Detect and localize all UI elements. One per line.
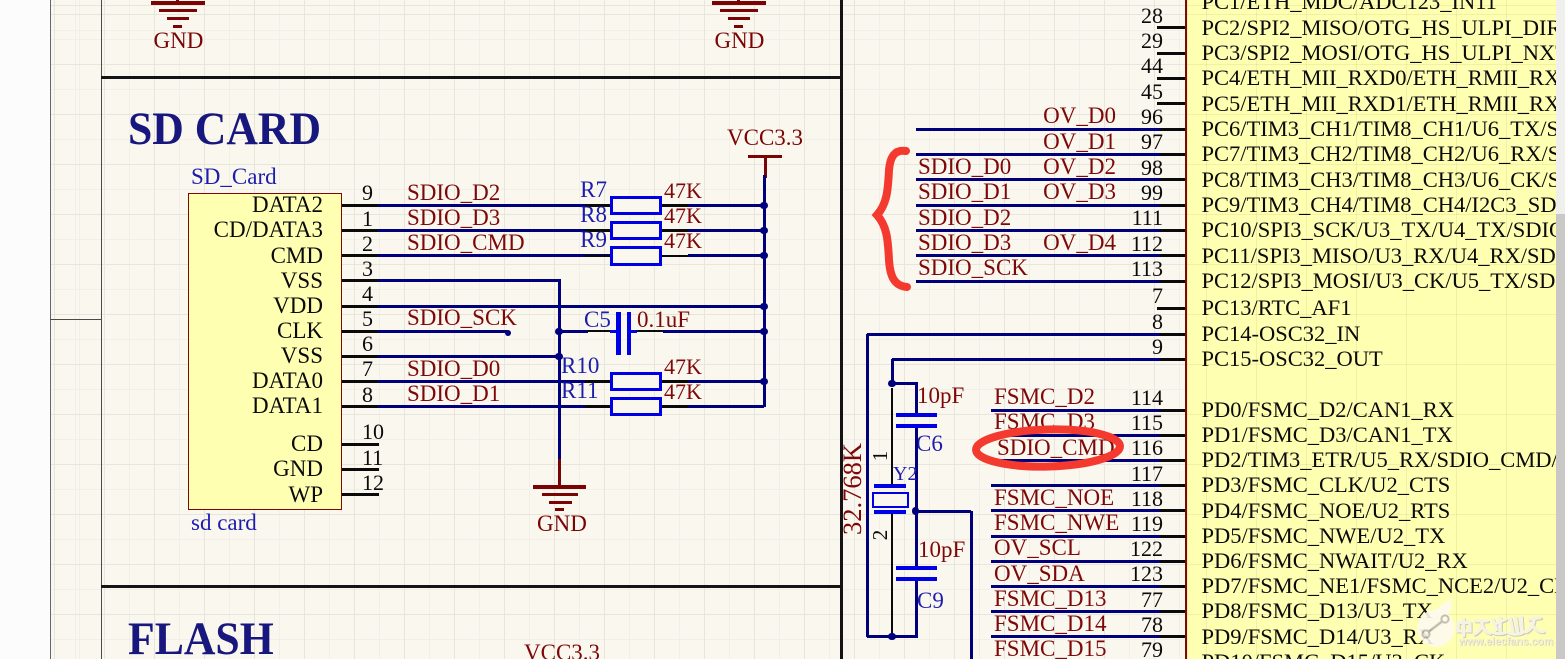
label 47K (R9) <box>664 229 702 253</box>
wire node to VSS (down) <box>916 510 972 513</box>
wire SDIO_D1 <box>378 405 612 408</box>
pin 96 (PC6) of U1 <box>1157 128 1185 131</box>
net label SDIO_D0 <box>407 357 500 381</box>
pin 99 (PC9) of U1 <box>1157 204 1185 207</box>
pin 12 (WP) of SD_Card <box>342 493 379 496</box>
capacitor C6 <box>896 413 937 418</box>
resistor R8 <box>610 221 662 241</box>
pin of R9 <box>585 255 610 258</box>
power VCC3.3 <box>727 126 803 150</box>
label R9 <box>547 228 607 252</box>
label R10 <box>561 354 599 378</box>
pin 77 (PD8) of U1 <box>1157 610 1185 613</box>
pin 122 (PD6) of U1 <box>1157 560 1185 563</box>
pin of R10 <box>585 380 610 383</box>
wire row 111 <box>916 229 1161 232</box>
pin 28 (PC2) of U1 <box>1157 26 1185 29</box>
junction <box>760 328 767 335</box>
crystal Y2 pin 1 <box>891 388 893 485</box>
pin 11 (GND) of SD_Card <box>342 468 379 471</box>
net label OV_D1 <box>1026 130 1116 154</box>
label 10pF (C9) <box>918 538 965 562</box>
net label OV_D0 <box>1026 104 1116 128</box>
pin ?? (PC1/ETH_MDC/ADC123_IN11) of U1 <box>1202 0 1497 14</box>
net label SDIO_D3 <box>407 206 500 230</box>
resistor R10 <box>610 372 662 392</box>
net label OV_SDA <box>994 562 1085 586</box>
pin 9 (PC15-OSC32_OUT) of U1 <box>1157 358 1185 361</box>
pin 10 (CD) of SD_Card <box>342 443 379 446</box>
ground (top right) <box>737 0 740 2</box>
pin of R7 <box>585 204 610 207</box>
wire R7 to VCC rail <box>688 204 764 207</box>
sheet border line <box>50 0 51 659</box>
pin 78 (PD9) of U1 <box>1157 635 1185 638</box>
pin of R11 <box>585 405 610 408</box>
junction <box>555 328 562 335</box>
label 47K (R11) <box>664 380 702 404</box>
ground (top left) <box>176 0 179 2</box>
wire R8 to VCC rail <box>688 229 764 232</box>
wire row 78 <box>991 635 1160 638</box>
net label SDIO_CMD <box>997 436 1115 460</box>
component SD_Card body <box>188 193 342 510</box>
pin 7 (DATA0) of SD_Card <box>342 380 379 383</box>
net label SDIO_SCK (MCU side) <box>918 256 1028 280</box>
wire row 97 <box>916 153 1161 156</box>
net label FSMC_D2 <box>994 385 1095 409</box>
wire C6 bottom to node <box>915 428 918 511</box>
junction <box>760 252 767 259</box>
wire row 118 <box>991 509 1160 512</box>
pin 97 (PC7) of U1 <box>1157 153 1185 156</box>
wire row 112 <box>916 254 1161 257</box>
label R11 <box>561 379 599 403</box>
wire SDIO_D0 <box>378 380 612 383</box>
label pin 1 (Y2) <box>868 446 892 466</box>
net label SDIO_D1 (MCU side) <box>918 180 1011 204</box>
crystal Y2 <box>874 484 906 488</box>
pin 7 (PC13) of U1 <box>1157 307 1185 310</box>
wire VCC rail <box>763 175 766 407</box>
junction <box>555 353 562 360</box>
annotation red ellipse around SDIO_CMD <box>970 424 1126 472</box>
wire VSS pin3 to ground rail <box>378 279 561 282</box>
net label FSMC_D14 <box>994 612 1106 636</box>
wire row 77 <box>991 610 1160 613</box>
label SD_Card <box>191 165 277 189</box>
wire row 122 <box>991 560 1160 563</box>
net label FSMC_NOE <box>994 486 1114 510</box>
capacitor C9 <box>896 566 937 571</box>
pin 117 (PD3) of U1 <box>1157 484 1185 487</box>
pin 8 (PC14-OSC32_IN) of U1 <box>1157 333 1185 336</box>
net label SDIO_D2 <box>407 181 500 205</box>
label 10pF (C6) <box>917 384 964 408</box>
capacitor C5 plate <box>616 312 620 355</box>
wire SDIO_D3 <box>378 229 611 232</box>
label 47K (R8) <box>664 204 702 228</box>
pin 4 (VDD) of SD_Card <box>342 305 379 308</box>
junction <box>760 378 767 385</box>
op-amp U? none; component U1 MCU body (STM32 port C/D block) <box>1185 0 1556 659</box>
wire C9 bottom stem <box>915 581 918 638</box>
wire PC14-OSC32_IN (row 8) <box>867 333 1160 336</box>
sheet margin <box>0 0 50 659</box>
scrollbar thumb <box>1556 214 1565 659</box>
capacitor C5 plate <box>627 312 631 355</box>
label sd card <box>191 511 257 535</box>
net label SDIO_D0 (MCU side) <box>918 155 1011 179</box>
resistor R11 <box>610 397 662 417</box>
net label SDIO_SCK <box>407 306 517 330</box>
pin 111 (PC10) of U1 <box>1157 229 1185 232</box>
wire C6 top stem <box>915 384 918 415</box>
label 0.1uF <box>637 308 690 332</box>
svg-text:www.elecfans.com: www.elecfans.com <box>1458 636 1553 648</box>
wire VSS pin6 to ground rail <box>378 355 559 358</box>
crystal Y2 pin 2 <box>891 514 893 637</box>
ground (SD card section) <box>558 459 561 487</box>
label R7 <box>547 178 607 202</box>
title SD CARD <box>128 106 321 153</box>
label R8 <box>547 203 607 227</box>
annotation red brace <box>868 142 918 297</box>
net label OV_D2 <box>1026 155 1116 179</box>
wire row 98 <box>916 178 1161 181</box>
wire row 113 <box>916 280 1161 283</box>
resistor R9 <box>610 246 662 266</box>
label 47K (R10) <box>664 355 702 379</box>
net label FSMC_D15 <box>994 637 1106 659</box>
net label OV_SCL <box>994 536 1081 560</box>
scrollbar track <box>1556 0 1565 659</box>
wire C9 top stem <box>915 511 918 567</box>
pin 98 (PC8) of U1 <box>1157 178 1185 181</box>
net label FSMC_D13 <box>994 587 1106 611</box>
watermark logo elecfans <box>1404 596 1565 659</box>
section divider (top) <box>101 76 843 80</box>
wire row 114 <box>991 409 1160 412</box>
wire R10 to VCC rail <box>688 380 764 383</box>
pin 5 (CLK) of SD_Card <box>342 330 379 333</box>
junction node C6/C9 <box>912 507 919 514</box>
wire C5 right <box>631 330 637 333</box>
pin 114 (PD0) of U1 <box>1157 409 1185 412</box>
wire row 123 <box>991 585 1160 588</box>
wire SDIO_SCK (CLK) <box>378 330 508 333</box>
pin 119 (PD5) of U1 <box>1157 535 1185 538</box>
pin 3 (VSS) of SD_Card <box>342 279 379 282</box>
label pin 2 (Y2) <box>868 525 892 545</box>
junction <box>888 633 895 640</box>
wire row 115 <box>991 434 1160 437</box>
junction <box>760 202 767 209</box>
net label FSMC_NWE <box>994 511 1119 535</box>
pin 9 (DATA2) of SD_Card <box>342 204 379 207</box>
pin 6 (VSS) of SD_Card <box>342 355 379 358</box>
net label SDIO_D1 <box>407 382 500 406</box>
pin 44 (PC4) of U1 <box>1157 77 1185 80</box>
wire row 119 <box>991 535 1160 538</box>
label 47K (R7) <box>664 179 702 203</box>
pin 123 (PD7) of U1 <box>1157 585 1185 588</box>
wire row 96 <box>916 128 1161 131</box>
pin 112 (PC11) of U1 <box>1157 254 1185 257</box>
wire VDD to VCC rail <box>378 305 764 308</box>
pin 113 (PC12) of U1 <box>1157 280 1185 283</box>
net label SDIO_CMD <box>407 231 525 255</box>
section divider (vertical) <box>840 0 843 659</box>
sheet border zone divider <box>50 319 101 320</box>
wire jog to C6 <box>892 382 918 385</box>
label 32.768K (Y2 value) <box>840 442 864 536</box>
pin 2 (CMD) of SD_Card <box>342 254 379 257</box>
pin 45 (PC5) of U1 <box>1157 102 1185 105</box>
wire crystal bottom rail <box>867 635 918 638</box>
net label OV_D3 <box>1026 180 1116 204</box>
wire R11 to VCC rail <box>688 405 764 408</box>
pin 115 (PD1) of U1 <box>1157 434 1185 437</box>
label Y2 <box>893 462 917 486</box>
wire PC15-OSC32_OUT (row 9) <box>892 358 1160 361</box>
label C9 <box>917 589 944 613</box>
sheet border line <box>101 0 102 659</box>
resistor R7 <box>610 196 662 216</box>
section divider (bottom) <box>101 585 843 589</box>
net label SDIO_D3 (MCU side) <box>918 231 1011 255</box>
net label OV_D4 <box>1026 231 1116 255</box>
pin of R8 <box>585 229 610 232</box>
label C6 <box>916 432 943 456</box>
wire C5 left <box>562 330 588 333</box>
wire R9 to VCC rail <box>688 254 764 257</box>
net label SDIO_D2 (MCU side) <box>918 206 1011 230</box>
pin 118 (PD4) of U1 <box>1157 509 1185 512</box>
pin 8 (DATA1) of SD_Card <box>342 405 379 408</box>
junction <box>760 303 767 310</box>
wire SDIO_D2 <box>378 204 611 207</box>
pin 29 (PC3) of U1 <box>1157 52 1185 55</box>
pin 116 (PD2) of U1 <box>1157 459 1185 462</box>
junction <box>760 227 767 234</box>
power VCC3.3 (flash section) <box>524 641 600 659</box>
wire row 116 <box>991 459 1160 462</box>
wire row 117 <box>991 484 1160 487</box>
title FLASH <box>128 616 274 659</box>
label C5 <box>584 308 611 332</box>
junction node OSC32_OUT <box>888 380 895 387</box>
pin 1 (CD/DATA3) of SD_Card <box>342 229 379 232</box>
net label FSMC_D3 <box>994 410 1095 434</box>
wire row 99 <box>916 204 1161 207</box>
wire SDIO_CMD <box>378 254 611 257</box>
